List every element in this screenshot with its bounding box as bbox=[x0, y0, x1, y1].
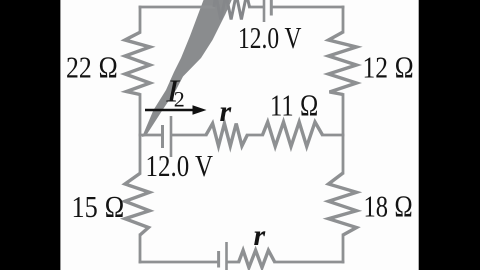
wire middle rail seg3 bbox=[247, 134, 262, 137]
resistor 11 ohm bbox=[263, 122, 323, 147]
wire middle rail seg1 bbox=[140, 134, 161, 137]
wire top rail left segment bbox=[140, 6, 214, 9]
battery bottom: short plate bbox=[217, 251, 220, 268]
wire top rail right segment bbox=[272, 6, 343, 9]
resistor 22 ohm bbox=[125, 32, 150, 95]
resistor r bottom bbox=[239, 250, 275, 267]
svg-text:15 Ω: 15 Ω bbox=[72, 190, 125, 224]
pointer wedge annotation arrow bbox=[142, 0, 234, 137]
svg-text:12.0 V: 12.0 V bbox=[146, 149, 214, 183]
svg-text:r: r bbox=[220, 95, 232, 128]
resistor 12 ohm bbox=[329, 32, 357, 95]
wire right vertical top bbox=[342, 7, 345, 32]
svg-text:12.0 V: 12.0 V bbox=[238, 21, 302, 55]
wire middle rail seg4 bbox=[323, 134, 344, 137]
wire bottom rail seg1 bbox=[140, 261, 218, 264]
battery middle: short plate bbox=[161, 125, 164, 148]
wire bottom rail seg2 bbox=[228, 261, 239, 264]
wire right vertical bottom bbox=[342, 235, 345, 262]
svg-text:r: r bbox=[254, 219, 266, 252]
wire left vertical top bbox=[139, 7, 142, 32]
svg-text:2: 2 bbox=[174, 87, 185, 112]
wire top rail mid segment bbox=[250, 6, 264, 9]
svg-text:11 Ω: 11 Ω bbox=[270, 89, 319, 123]
current arrow I2 head bbox=[193, 105, 207, 114]
svg-text:12 Ω: 12 Ω bbox=[363, 51, 415, 85]
wire right vertical middle bbox=[342, 95, 345, 174]
battery middle: long plate bbox=[170, 116, 173, 157]
battery top: long plate bbox=[263, 0, 266, 22]
resistor r middle bbox=[206, 124, 247, 147]
current arrow I2 shaft bbox=[145, 109, 194, 112]
resistor 15 ohm bbox=[125, 173, 150, 235]
battery top: short plate bbox=[270, 0, 273, 16]
wire bottom rail seg3 bbox=[275, 261, 343, 264]
wire middle rail seg2 bbox=[172, 134, 206, 137]
white content panel bbox=[60, 0, 418, 270]
wire left vertical middle bbox=[139, 95, 142, 174]
svg-text:18 Ω: 18 Ω bbox=[364, 190, 414, 224]
wire left vertical bottom bbox=[139, 235, 142, 262]
resistor 18 ohm bbox=[329, 173, 357, 235]
resistor top (cut off at image top) bbox=[214, 0, 250, 20]
battery bottom: long plate bbox=[225, 242, 228, 270]
svg-text:22 Ω: 22 Ω bbox=[66, 51, 118, 85]
